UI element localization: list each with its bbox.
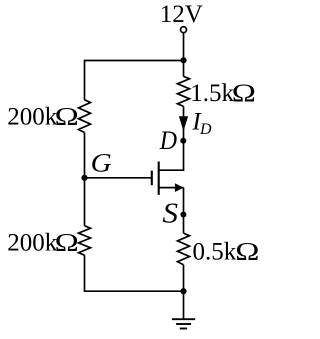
svg-text:Ω: Ω: [55, 103, 79, 131]
wire: supply terminal down to top junction: [183, 33, 185, 61]
bottom junction dot: [180, 288, 186, 294]
wire: top horizontal from left rail to junction: [85, 60, 184, 62]
resistor RS 0.5k (zigzag): [178, 233, 190, 265]
wire: gate lead from G node to gate bar: [85, 177, 152, 179]
svg-text:200k: 200k: [7, 103, 58, 130]
node G junction dot: [81, 175, 87, 181]
node D junction dot: [180, 138, 186, 144]
svg-text:0.5k: 0.5k: [193, 238, 237, 265]
wire: drain lead horizontal to channel bar: [159, 169, 185, 171]
wire: drain resistor to drain corner (through D node): [183, 106, 185, 170]
ground symbol bar 1: [172, 318, 195, 320]
svg-text:Ω: Ω: [235, 238, 259, 266]
wire: source resistor down to bottom junction: [183, 265, 185, 291]
ground symbol bar 2: [176, 323, 191, 325]
svg-text:12V: 12V: [160, 1, 203, 28]
transistor M1 gate bar: [151, 171, 153, 186]
svg-text:Ω: Ω: [55, 229, 79, 257]
left rail: lower resistor to bottom corner: [84, 255, 86, 292]
junction dot at supply node: [180, 57, 186, 63]
resistor RG2 200k (zigzag): [79, 226, 91, 256]
transistor M1 channel bar: [158, 162, 160, 195]
wire: ground stub: [183, 291, 185, 319]
left rail: top corner down to upper 200k resistor: [84, 60, 86, 100]
current arrow ID (arrowhead pointing down on drain wire): [179, 117, 187, 131]
wire: bottom horizontal from left rail to ground junction: [85, 290, 184, 292]
wire: source corner down to S node and source resistor: [183, 188, 185, 234]
source arrowhead pointing right: [175, 184, 183, 192]
node S junction dot: [180, 212, 186, 218]
svg-text:Ω: Ω: [232, 79, 256, 107]
wire: junction down to drain resistor: [183, 61, 185, 77]
svg-text:200k: 200k: [7, 230, 58, 257]
svg-text:S: S: [162, 199, 178, 229]
supply terminal (open circle): [181, 27, 187, 33]
ground symbol bar 3: [180, 328, 187, 330]
left rail: upper resistor to lower 200k resistor (through G node): [84, 133, 86, 226]
wire: source lead horizontal from channel bar: [159, 187, 184, 189]
svg-text:1.5k: 1.5k: [190, 80, 234, 107]
svg-text:D: D: [159, 127, 177, 155]
resistor RD 1.5k (zigzag): [178, 76, 190, 106]
svg-text:D: D: [199, 121, 212, 138]
resistor RG1 200k (zigzag): [79, 100, 91, 133]
svg-text:G: G: [91, 148, 112, 177]
